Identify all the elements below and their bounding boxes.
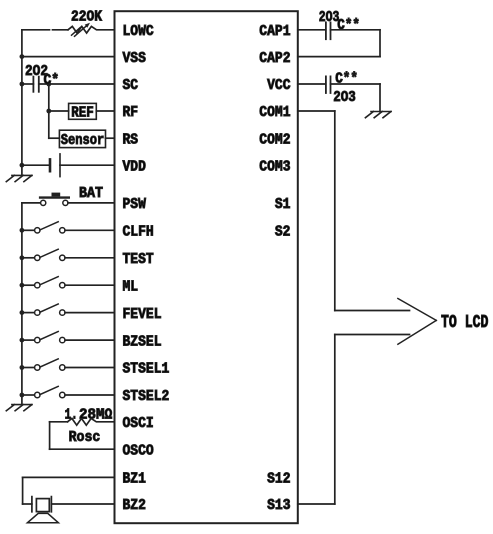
svg-text:BAT: BAT xyxy=(79,185,103,202)
svg-text:TEST: TEST xyxy=(123,251,154,268)
svg-text:CAP2: CAP2 xyxy=(259,50,290,67)
svg-text:VCC: VCC xyxy=(267,77,290,94)
svg-text:S12: S12 xyxy=(267,471,290,488)
svg-text:PSW: PSW xyxy=(123,196,146,213)
svg-text:OSCI: OSCI xyxy=(123,415,154,432)
svg-text:BZ2: BZ2 xyxy=(123,497,146,514)
svg-text:COM2: COM2 xyxy=(259,131,290,148)
svg-text:BZ1: BZ1 xyxy=(123,471,146,488)
svg-text:Ω: Ω xyxy=(105,407,113,424)
svg-text:TO LCD: TO LCD xyxy=(441,313,489,333)
svg-text:S1: S1 xyxy=(275,196,291,213)
svg-text:OSCO: OSCO xyxy=(123,442,154,459)
svg-text:COM1: COM1 xyxy=(259,104,290,121)
svg-text:Rosc: Rosc xyxy=(69,429,101,446)
svg-text:Sensor: Sensor xyxy=(61,132,105,149)
svg-text:REF: REF xyxy=(71,105,94,122)
svg-text:BZSEL: BZSEL xyxy=(123,333,162,350)
svg-text:VDD: VDD xyxy=(123,158,146,175)
svg-text:STSEL2: STSEL2 xyxy=(123,388,170,405)
svg-text:LOWC: LOWC xyxy=(123,23,154,40)
svg-text:C**: C** xyxy=(337,17,360,34)
svg-text:2O3: 2O3 xyxy=(319,9,340,26)
svg-text:SC: SC xyxy=(123,77,139,94)
svg-text:STSEL1: STSEL1 xyxy=(123,361,170,378)
svg-text:22OK: 22OK xyxy=(71,8,102,25)
svg-text:S2: S2 xyxy=(275,224,291,241)
svg-text:ML: ML xyxy=(123,278,139,295)
svg-text:28M: 28M xyxy=(79,407,105,424)
svg-text:1.: 1. xyxy=(65,407,78,424)
svg-text:COM3: COM3 xyxy=(259,158,290,175)
svg-text:RF: RF xyxy=(123,104,139,121)
svg-text:C*: C* xyxy=(44,72,60,89)
svg-text:CLFH: CLFH xyxy=(123,224,154,241)
svg-text:VSS: VSS xyxy=(123,50,146,67)
svg-text:RS: RS xyxy=(123,131,139,148)
svg-text:C**: C** xyxy=(335,71,358,88)
svg-text:S13: S13 xyxy=(267,497,290,514)
svg-text:2O3: 2O3 xyxy=(333,89,356,106)
svg-text:FEVEL: FEVEL xyxy=(123,306,162,323)
svg-text:CAP1: CAP1 xyxy=(259,23,290,40)
